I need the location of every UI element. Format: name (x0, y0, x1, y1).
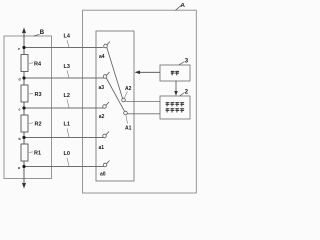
wire L3 (24, 77, 104, 79)
svg-text:L2: L2 (64, 93, 70, 99)
leader for label A1 (126, 116, 128, 124)
svg-text:R3: R3 (35, 92, 42, 98)
wire L0 (24, 166, 104, 168)
tap selector box (96, 31, 134, 181)
contact a0 tick (107, 161, 110, 164)
switch arm A2 (107, 48, 123, 99)
svg-text:L0: L0 (64, 151, 70, 157)
contact a2 tick (106, 102, 109, 105)
node a (L0 tap) (22, 165, 25, 168)
waveform generator box U2 (160, 96, 190, 119)
enclosure box B (4, 36, 52, 179)
leader for label A2 (125, 92, 128, 99)
node e (L4 tap) (22, 46, 25, 49)
wire L4 (24, 47, 104, 49)
resistor R1 (21, 144, 28, 161)
switch arm A1 pivot (124, 111, 128, 115)
contact a4 tick (107, 42, 110, 45)
svg-text:R2: R2 (35, 122, 42, 128)
svg-text:c: c (19, 108, 21, 112)
leader for label L4 (67, 40, 69, 47)
svg-text:B: B (40, 30, 45, 36)
svg-text:a: a (18, 166, 20, 170)
svg-text:d: d (19, 78, 21, 82)
resistor R4 (21, 55, 28, 72)
waveform generator text blob line 2 (166, 108, 185, 112)
switch arm A1 (106, 78, 124, 111)
svg-text:a0: a0 (100, 172, 106, 178)
svg-text:3: 3 (185, 59, 189, 65)
svg-text:2: 2 (185, 90, 189, 96)
switch arm A2 pivot (122, 98, 126, 102)
node d (L3 tap) (22, 76, 25, 79)
wire between R3 and R2 (23, 102, 25, 115)
svg-text:R1: R1 (34, 151, 41, 157)
waveform generator text blob line 1 (166, 102, 185, 106)
leader for label R4 (29, 62, 33, 65)
node b (L1 tap) (22, 136, 25, 139)
resistor chain vertical wire (23, 33, 25, 55)
control arrow to waveform generator (175, 81, 177, 95)
contact a3 (103, 75, 107, 79)
leader for label A (176, 6, 182, 11)
leader for label R1 (29, 151, 33, 154)
contact a1 (103, 134, 107, 138)
leader for label 2 (180, 93, 185, 96)
svg-text:L1: L1 (64, 122, 70, 128)
svg-text:L3: L3 (64, 64, 70, 70)
leader for label L0 (67, 158, 69, 166)
wire L1 (24, 137, 104, 139)
svg-text:a3: a3 (99, 85, 105, 91)
wire pivot A1 to waveform generator (127, 113, 160, 115)
leader for label L3 (67, 71, 69, 78)
control arrow into tap selector (139, 71, 160, 73)
output arrow up (22, 28, 26, 34)
svg-text:A2: A2 (125, 86, 132, 92)
svg-text:A1: A1 (125, 126, 132, 132)
svg-text:a2: a2 (99, 114, 105, 120)
contact a2 (103, 105, 107, 109)
enclosure box A (83, 10, 197, 193)
leader for label L1 (67, 129, 69, 138)
output arrow down (22, 183, 26, 189)
leader for label B (34, 34, 40, 36)
svg-text:R4: R4 (34, 62, 42, 68)
leader for label R2 (29, 122, 33, 125)
wire below R1 to output arrow (23, 161, 25, 185)
control box U3 (160, 65, 190, 81)
contact a4 (104, 44, 108, 48)
wire L2 (24, 107, 104, 109)
leader for label L2 (67, 100, 69, 108)
svg-text:b: b (19, 137, 21, 141)
resistor R2 (21, 115, 28, 132)
svg-text:A: A (181, 3, 186, 9)
svg-text:L4: L4 (64, 34, 71, 40)
wire between R4 and R3 (23, 72, 25, 86)
svg-text:a4: a4 (99, 54, 105, 60)
svg-text:e: e (18, 47, 20, 51)
contact a3 tick (107, 72, 110, 75)
wire pivot A2 to waveform generator (125, 101, 160, 103)
contact a0 (103, 163, 107, 167)
leader for label 3 (179, 62, 185, 65)
svg-text:a1: a1 (99, 145, 105, 151)
node c (L2 tap) (22, 106, 25, 109)
leader for label R3 (29, 92, 33, 95)
wire between R2 and R1 (23, 132, 25, 144)
resistor R3 (21, 85, 28, 102)
contact a1 tick (106, 132, 109, 135)
control box text blob (171, 71, 179, 75)
